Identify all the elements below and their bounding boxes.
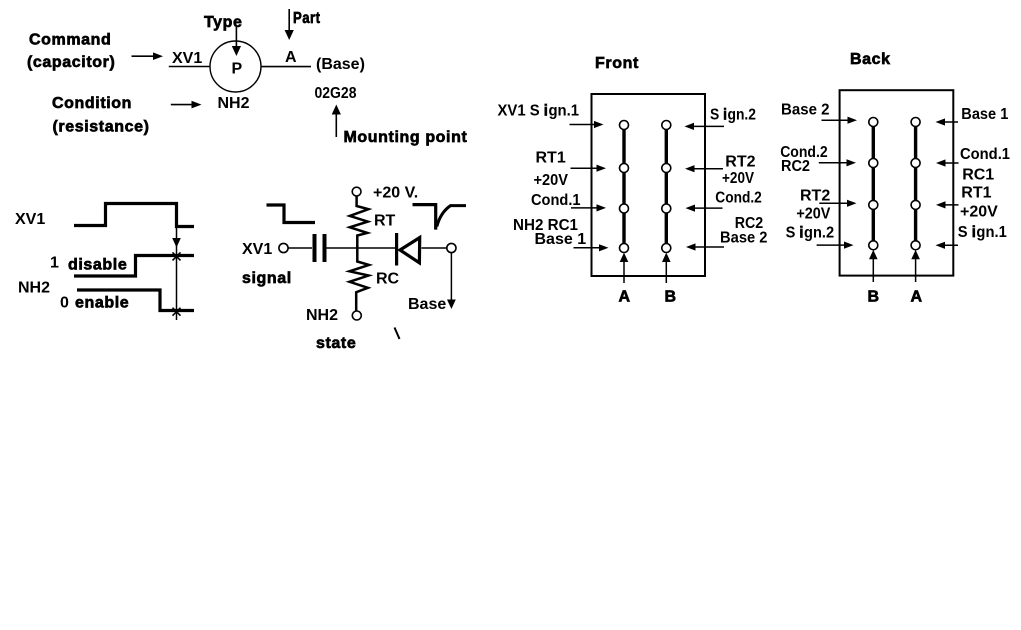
label Front xyxy=(595,55,639,72)
terminal Base output xyxy=(447,243,456,252)
back pin A1 xyxy=(911,118,920,127)
svg-text:A: A xyxy=(911,289,923,306)
svg-text:Base 2: Base 2 xyxy=(781,101,830,118)
label Part xyxy=(293,10,321,27)
label Cond.2 RC2 (back) xyxy=(780,144,828,175)
arrow back pin B4 xyxy=(817,242,854,249)
svg-text:XV1: XV1 xyxy=(242,241,272,258)
arrow back pin B1 xyxy=(822,117,858,124)
capacitor plates xyxy=(315,234,325,262)
front pin A2 xyxy=(620,164,629,173)
back pin A3 xyxy=(911,200,920,209)
back column A conductor xyxy=(914,122,917,245)
svg-text:+20V: +20V xyxy=(534,172,569,189)
svg-text:RC: RC xyxy=(376,271,400,288)
arrow up to back pin A4 xyxy=(911,250,920,282)
svg-text:RT1: RT1 xyxy=(961,184,991,201)
front pin A4 xyxy=(620,244,629,253)
arrow back pin A1 xyxy=(936,118,959,125)
wire diode to output xyxy=(422,247,448,249)
label Sign.1 (back) xyxy=(958,224,1007,241)
back pin A2 xyxy=(911,159,920,168)
svg-text:Part: Part xyxy=(293,10,321,27)
label Base 1 (back) xyxy=(961,106,1008,123)
back pin B3 xyxy=(869,200,878,209)
terminal XV1 xyxy=(279,243,288,252)
svg-text:RC1: RC1 xyxy=(962,166,994,183)
front column A conductor xyxy=(622,125,625,248)
svg-text:0: 0 xyxy=(60,295,69,312)
svg-text:A: A xyxy=(285,49,297,66)
svg-text:RT: RT xyxy=(374,213,396,230)
back pin B1 xyxy=(869,118,878,127)
arrow from Command label to XV1 xyxy=(132,52,164,60)
svg-text:(resistance): (resistance) xyxy=(53,119,150,136)
label RT xyxy=(374,213,396,230)
label RT2 +20V xyxy=(722,154,756,188)
arrow pin A4 left xyxy=(574,244,609,251)
label A (front) xyxy=(619,289,631,306)
svg-text:+20 V.: +20 V. xyxy=(373,185,418,202)
svg-text:Back: Back xyxy=(850,51,891,68)
arrow pin B2 right xyxy=(685,165,723,172)
arrow up to pin B4 xyxy=(662,253,671,283)
arrow Type to circle xyxy=(232,27,241,56)
svg-text:Cond.1: Cond.1 xyxy=(960,146,1010,163)
NH2 disable waveform xyxy=(74,256,194,277)
svg-text:Base 2: Base 2 xyxy=(720,229,768,246)
label Cond.1 RC1 (back) xyxy=(960,146,1010,184)
crossing mark lower xyxy=(173,308,181,316)
label A (back) xyxy=(911,289,923,306)
stray mark xyxy=(395,328,400,340)
svg-text:signal: signal xyxy=(242,270,292,287)
svg-text:Cond.1: Cond.1 xyxy=(531,192,581,209)
svg-text:Base 1: Base 1 xyxy=(961,106,1008,123)
svg-text:RT1: RT1 xyxy=(536,150,566,167)
svg-text:B: B xyxy=(665,289,677,306)
label Type xyxy=(204,14,243,31)
arrow up to pin A4 xyxy=(620,253,629,283)
label Sign.2 xyxy=(710,107,756,124)
label XV1 (timing) xyxy=(15,211,45,228)
front connector body xyxy=(592,94,706,276)
arrow up to back pin B4 xyxy=(869,250,878,282)
arrow back pin A3 xyxy=(936,201,959,208)
label XV1 Sign.1 xyxy=(498,103,580,120)
arrow to Base xyxy=(447,253,456,309)
svg-text:enable: enable xyxy=(75,295,129,312)
svg-text:RT2: RT2 xyxy=(725,154,755,171)
node XV1 (command designator) xyxy=(172,50,202,67)
arrow Mounting point to 02G28 xyxy=(332,105,341,138)
front pin B1 xyxy=(662,121,671,130)
XV1 command waveform xyxy=(74,204,194,227)
label NH2 RC1 Base 1 xyxy=(513,217,586,248)
svg-text:Mounting point: Mounting point xyxy=(344,129,468,146)
label Cond.1 xyxy=(531,192,581,209)
label NH2 (circuit) xyxy=(306,307,338,324)
svg-text:+20V: +20V xyxy=(796,205,830,222)
svg-text:NH2: NH2 xyxy=(306,307,338,324)
arrow pin B1 right xyxy=(685,123,725,130)
label NH2 (timing) xyxy=(18,280,50,297)
label 1 disable xyxy=(50,255,127,274)
label RC xyxy=(376,271,400,288)
label RC2 Base 2 xyxy=(720,215,768,246)
arrow back pin B2 xyxy=(819,159,856,166)
svg-text:Condition: Condition xyxy=(52,95,132,112)
svg-text:RT2: RT2 xyxy=(800,188,830,205)
output pulse waveform icon xyxy=(413,205,467,230)
label Sign.2 (back) xyxy=(786,225,835,242)
svg-text:(Base): (Base) xyxy=(316,56,365,73)
svg-text:disable: disable xyxy=(68,257,127,274)
crossing mark upper xyxy=(173,252,181,260)
arrow back pin B3 xyxy=(819,200,856,207)
wire capacitor to diode xyxy=(327,247,396,249)
label (Base) xyxy=(316,56,365,73)
svg-text:B: B xyxy=(868,289,880,306)
svg-text:XV1: XV1 xyxy=(15,211,45,228)
terminal +20V xyxy=(352,187,361,196)
back connector body xyxy=(840,90,954,275)
terminal NH2 xyxy=(352,311,361,320)
label Cond.2 xyxy=(715,190,762,207)
arrow pin A2 left xyxy=(571,165,607,172)
arrow back pin A4 xyxy=(936,242,959,249)
back pin B2 xyxy=(869,159,878,168)
label XV1 signal xyxy=(242,241,292,287)
wire under XV1 to circle xyxy=(169,66,210,68)
svg-text:XV1: XV1 xyxy=(172,50,202,67)
arrow pin A3 left xyxy=(571,204,606,211)
arrow pin B3 right xyxy=(686,205,723,212)
svg-text:Cond.2: Cond.2 xyxy=(715,190,762,207)
svg-text:Base: Base xyxy=(408,296,446,313)
front pin B4 xyxy=(662,244,671,253)
NH2 enable waveform xyxy=(77,290,194,311)
svg-text:+20V: +20V xyxy=(722,170,754,187)
timing reference line with arrow xyxy=(172,205,181,320)
back pin A4 xyxy=(911,241,920,250)
back pin B4 xyxy=(869,241,878,250)
label Command (capacitor) xyxy=(27,32,115,72)
arrow back pin A2 xyxy=(936,159,959,166)
label Back xyxy=(850,51,891,68)
svg-text:RC2: RC2 xyxy=(781,158,810,175)
input step waveform icon xyxy=(267,205,316,223)
label state xyxy=(316,335,356,352)
resistor RC xyxy=(350,246,370,311)
label RT1 +20V xyxy=(534,150,569,189)
svg-text:S ign.1: S ign.1 xyxy=(958,224,1007,241)
svg-text:A: A xyxy=(619,289,631,306)
label RT1 +20V (back) xyxy=(960,184,998,220)
svg-text:P: P xyxy=(232,61,243,78)
front pin A3 xyxy=(620,204,629,213)
label RT2 +20V (back) xyxy=(796,188,830,223)
svg-text:1: 1 xyxy=(50,255,59,272)
svg-text:Command: Command xyxy=(29,32,111,49)
front pin B3 xyxy=(662,204,671,213)
svg-text:state: state xyxy=(316,335,356,352)
node 02G28 (mounting point) xyxy=(315,85,357,102)
label Base xyxy=(408,296,446,313)
svg-text:S ign.2: S ign.2 xyxy=(786,225,835,242)
svg-text:XV1 S ign.1: XV1 S ign.1 xyxy=(498,103,580,120)
svg-text:NH2: NH2 xyxy=(18,280,50,297)
node NH2 (condition designator) xyxy=(218,95,250,112)
label +20 V. xyxy=(373,185,418,202)
back column B conductor xyxy=(872,122,875,245)
wire circle to (Base) xyxy=(261,66,311,68)
label Base 2 (back) xyxy=(781,101,830,118)
svg-text:Base 1: Base 1 xyxy=(535,231,587,248)
front column B conductor xyxy=(665,125,668,248)
arrow Part to A xyxy=(285,9,294,40)
label Mounting point xyxy=(344,129,468,146)
svg-text:+20V: +20V xyxy=(960,203,998,220)
front pin A1 xyxy=(620,121,629,130)
node A (part designator) xyxy=(285,49,297,66)
wire XV1 to capacitor xyxy=(289,247,313,249)
diode D1 xyxy=(397,233,420,266)
svg-text:02G28: 02G28 xyxy=(315,85,357,102)
type circle P xyxy=(210,41,261,92)
label 0 enable xyxy=(60,295,129,312)
resistor RT xyxy=(350,196,369,249)
svg-text:(capacitor): (capacitor) xyxy=(27,54,115,71)
svg-text:NH2: NH2 xyxy=(218,95,250,112)
arrow pin A1 left xyxy=(570,121,604,128)
label B (front) xyxy=(665,289,677,306)
arrow from Condition label to NH2 xyxy=(171,101,202,109)
svg-text:S ign.2: S ign.2 xyxy=(710,107,756,124)
svg-text:Front: Front xyxy=(595,55,639,72)
front pin B2 xyxy=(662,164,671,173)
label B (back) xyxy=(868,289,880,306)
arrow pin B4 right xyxy=(686,243,724,250)
label Condition (resistance) xyxy=(52,95,150,136)
